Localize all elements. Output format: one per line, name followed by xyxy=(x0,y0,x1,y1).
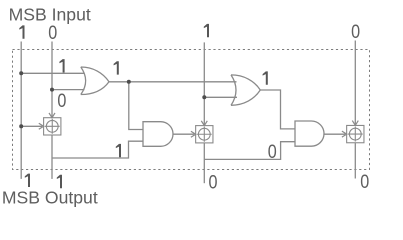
svg-text:0: 0 xyxy=(209,171,218,193)
svg-text:0: 0 xyxy=(57,90,66,112)
xor-box X1 xyxy=(44,118,61,135)
label output A value 1 xyxy=(25,174,30,187)
label OR G1 top input 1 xyxy=(59,59,64,72)
label input A value 1 xyxy=(19,25,24,38)
arrowhead into XOR X3 top xyxy=(352,121,358,126)
wire AND A1 output to XOR X2 left input xyxy=(173,133,194,135)
label OR G1 output 1 xyxy=(114,61,119,74)
wire OR G1 bottom input xyxy=(52,89,85,91)
wire XOR X3 output vertical xyxy=(354,143,356,178)
and-gate A1 xyxy=(143,122,173,147)
dashed boundary box xyxy=(13,50,370,170)
svg-text:0: 0 xyxy=(48,22,57,44)
arrowhead into XOR X1 left xyxy=(39,123,44,129)
svg-text:MSB Output: MSB Output xyxy=(2,188,98,208)
svg-text:0: 0 xyxy=(268,141,277,163)
wire XOR X2 output branch to AND A2 bottom input xyxy=(204,142,295,160)
wire XOR X2 output vertical xyxy=(203,143,205,183)
wire XOR X1 output branch to AND A1 bottom input xyxy=(52,141,143,158)
wire carry down to AND A1 top input xyxy=(129,82,143,130)
wire OR G2 output to AND A2 top input xyxy=(260,90,295,129)
arrowhead into XOR X2 left xyxy=(191,131,196,137)
wire XOR X1 output vertical xyxy=(51,135,53,179)
xor-box X2 xyxy=(196,126,213,143)
wire node B to OR G2 bottom input xyxy=(204,96,237,98)
arrowhead into XOR X3 left xyxy=(342,131,347,137)
label AND A1 bottom input 1 xyxy=(116,144,121,157)
junction dot on input A at OR G1 top input xyxy=(19,71,23,75)
label OR G2 output 1 xyxy=(263,71,268,84)
junction dot on OR G1 output xyxy=(127,80,131,84)
svg-text:0: 0 xyxy=(360,171,369,193)
wire input B vertical upper (value 0) xyxy=(51,42,53,118)
wire OR G1 output to OR G2 top input xyxy=(109,81,237,83)
wire input A vertical (leftmost, value 1) xyxy=(20,42,22,179)
junction dot node B on input C at OR G2 input xyxy=(202,95,206,99)
or-gate G2 xyxy=(231,75,260,105)
xor-box X3 xyxy=(347,125,364,142)
wire input D vertical upper (value 0) xyxy=(354,41,356,126)
label output B value 1 xyxy=(57,175,62,188)
and-gate A2 xyxy=(295,121,324,146)
arrowhead into XOR X2 top xyxy=(201,121,207,126)
wire OR G1 top input xyxy=(21,72,84,74)
arrowhead into XOR X1 top xyxy=(49,113,55,118)
label input C value 1 xyxy=(204,24,209,37)
junction dot node A on input A at XOR X1 input xyxy=(19,124,23,128)
wire AND A2 output to XOR X3 left input xyxy=(324,133,345,135)
wire input C vertical upper (value 1) xyxy=(203,42,205,125)
or-gate G1 xyxy=(81,67,109,95)
svg-text:0: 0 xyxy=(351,21,360,43)
junction dot on input B at OR G1 bottom input xyxy=(50,88,54,92)
wire node A to XOR X1 left input xyxy=(21,125,42,127)
